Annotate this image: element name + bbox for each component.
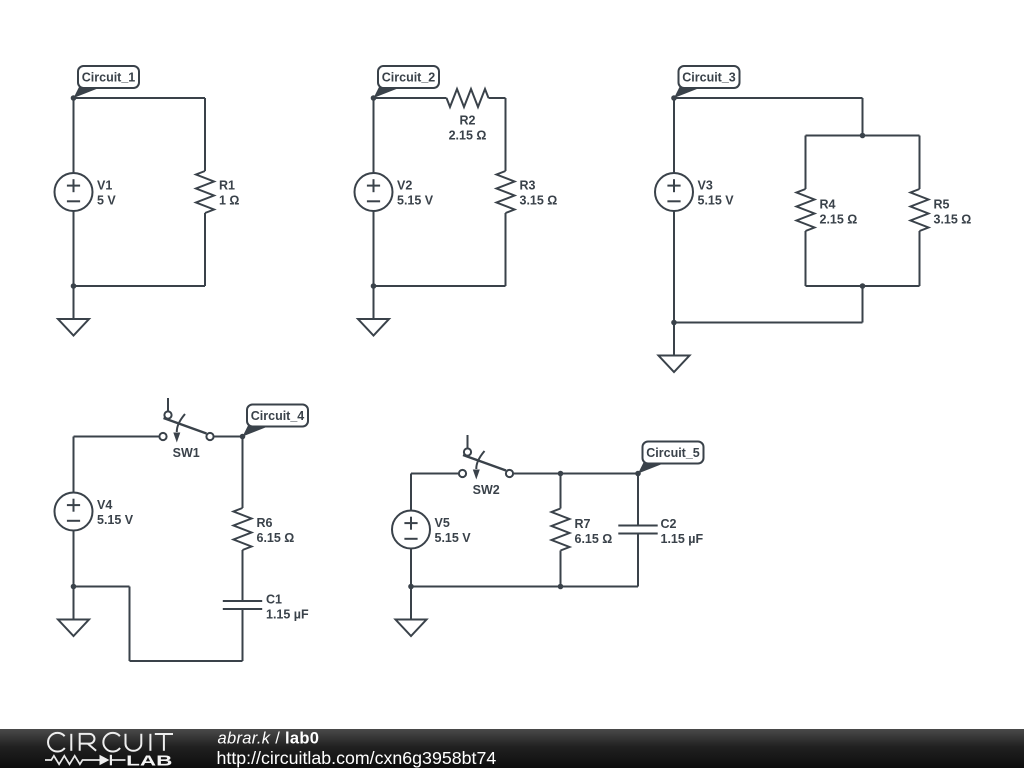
svg-text:R3: R3 (520, 179, 536, 193)
wire bottom rail circuit 3 (674, 322, 863, 324)
wire top right circuit 2 (489, 97, 506, 99)
wire parallel top bar circuit 3 (806, 135, 920, 137)
svg-text:Circuit_3: Circuit_3 (682, 71, 736, 85)
svg-text:SW1: SW1 (173, 446, 200, 460)
wire top left circuit 2 (374, 97, 447, 99)
svg-text:LAB: LAB (126, 753, 172, 768)
wire C2 bottom vertical (637, 534, 639, 587)
capacitor C1 (223, 601, 262, 609)
label R1 1 Ω (219, 179, 239, 208)
wire V4 to SW1 (74, 436, 160, 438)
logo diode symbol (100, 755, 110, 766)
svg-text:Circuit_1: Circuit_1 (82, 71, 136, 85)
logo wire to LAB (112, 759, 126, 761)
wire bottom drop circuit 3 (862, 286, 864, 323)
svg-text:R1: R1 (219, 179, 235, 193)
svg-text:1 Ω: 1 Ω (219, 194, 239, 208)
svg-text:V2: V2 (397, 179, 412, 193)
svg-text:5.15 V: 5.15 V (397, 194, 434, 208)
node top circuit 1 (71, 95, 77, 101)
wire V4 bottom vertical (73, 531, 75, 587)
ground circuit 5 (396, 587, 427, 637)
capacitor C2 (618, 526, 657, 534)
svg-text:Circuit_2: Circuit_2 (382, 71, 436, 85)
label C2 1.15 µF (661, 517, 704, 546)
label R6 6.15 Ω (257, 516, 295, 545)
svg-text:V5: V5 (435, 516, 450, 530)
svg-text:5.15 V: 5.15 V (435, 531, 472, 545)
wire bottom vertical jog circuit 4 (129, 587, 131, 662)
wire C1 down (242, 609, 244, 661)
voltage source V5 (392, 511, 430, 549)
switch SW1 (159, 398, 213, 443)
wire V5 top vertical (410, 474, 412, 511)
wire R4 branch upper (805, 136, 807, 190)
label V3 5.15 V (698, 179, 735, 208)
resistor R7 (552, 509, 570, 551)
label R4 2.15 Ω (820, 198, 858, 227)
resistor R1 (196, 171, 214, 213)
node top circuit 3 (671, 95, 677, 101)
wire bottom rail circuit 5 (411, 586, 638, 588)
node SW2 right rail (558, 471, 564, 477)
svg-text:5.15 V: 5.15 V (97, 513, 134, 527)
wire top rail circuit 3 (674, 97, 863, 99)
footer bar (0, 729, 1024, 768)
wire V5 to SW2 (411, 473, 459, 475)
wire node to R7 (560, 474, 562, 509)
label R5 3.15 Ω (934, 198, 972, 227)
svg-text:C2: C2 (661, 517, 677, 531)
wire bottom rail circuit 2 (374, 285, 506, 287)
wire bottom horizontal circuit 4 (130, 660, 243, 662)
node circuit 5 bottom mid (558, 584, 564, 590)
wire right upper circuit 1 (204, 98, 206, 171)
svg-text:V3: V3 (698, 179, 713, 193)
wire right lower circuit 2 (505, 213, 507, 286)
wire R7 bottom (560, 551, 562, 587)
svg-text:5.15 V: 5.15 V (698, 194, 735, 208)
flag Circuit_4 (243, 405, 309, 437)
node top circuit 2 (371, 95, 377, 101)
logo CIRCUIT letter R (80, 734, 96, 751)
wire right upper circuit 2 (505, 98, 507, 171)
logo diode cathode bar (110, 755, 112, 766)
svg-text:1.15 µF: 1.15 µF (266, 607, 309, 621)
svg-text:3.15 Ω: 3.15 Ω (934, 213, 972, 227)
resistor R3 (497, 171, 515, 213)
label V4 5.15 V (97, 498, 134, 527)
svg-text:5 V: 5 V (97, 194, 116, 208)
logo CIRCUIT letter I (149, 734, 151, 751)
wire SW2 to C2 top (513, 473, 638, 475)
voltage source V4 (55, 493, 93, 531)
wire node to R6 (242, 437, 244, 509)
ground circuit 3 (659, 323, 690, 373)
wire left upper circuit 3 (673, 98, 675, 173)
svg-text:R6: R6 (257, 516, 273, 530)
svg-text:http://circuitlab.com/cxn6g395: http://circuitlab.com/cxn6g3958bt74 (217, 748, 497, 768)
switch SW2 (459, 435, 513, 480)
node parallel bottom circuit 3 (860, 283, 866, 289)
voltage source V1 (55, 173, 93, 211)
node bottom circuit 2 (371, 283, 377, 289)
ground circuit 2 (358, 286, 389, 336)
wire left lower circuit 2 (373, 211, 375, 286)
label C1 1.15 µF (266, 592, 309, 621)
svg-text:2.15 Ω: 2.15 Ω (820, 213, 858, 227)
svg-text:2.15 Ω: 2.15 Ω (449, 128, 487, 142)
svg-text:1.15 µF: 1.15 µF (661, 532, 704, 546)
node circuit 4 bottom (71, 584, 77, 590)
label V1 5 V (97, 179, 116, 208)
resistor R2 (447, 89, 489, 107)
flag Circuit_2 (374, 66, 440, 98)
wire left lower circuit 3 (673, 211, 675, 323)
svg-text:V4: V4 (97, 498, 112, 512)
wire bottom rail circuit 1 (74, 285, 206, 287)
svg-text:6.15 Ω: 6.15 Ω (575, 532, 613, 546)
wire left lower circuit 1 (73, 211, 75, 286)
resistor R4 (797, 189, 815, 231)
wire jog to node circuit 4 (74, 586, 130, 588)
label R2 2.15 Ω (449, 113, 487, 142)
svg-text:C1: C1 (266, 592, 282, 606)
label V2 5.15 V (397, 179, 434, 208)
ground circuit 4 (58, 587, 89, 637)
svg-text:abrar.k / lab0: abrar.k / lab0 (218, 730, 320, 748)
label R7 6.15 Ω (575, 517, 613, 546)
svg-text:6.15 Ω: 6.15 Ω (257, 531, 295, 545)
label V5 5.15 V (435, 516, 472, 545)
wire V4 top vertical (73, 437, 75, 493)
wire left upper circuit 1 (73, 98, 75, 173)
logo CIRCUIT letter U (126, 734, 142, 751)
label R3 3.15 Ω (520, 179, 558, 208)
svg-text:Circuit_4: Circuit_4 (251, 409, 305, 423)
wire top rail circuit 1 (74, 97, 206, 99)
resistor R5 (911, 189, 929, 231)
svg-text:R4: R4 (820, 198, 836, 212)
svg-text:Circuit_5: Circuit_5 (646, 446, 700, 460)
logo CIRCUIT letter T (155, 734, 173, 751)
wire R5 branch upper (919, 136, 921, 190)
wire C2 top vertical (637, 474, 639, 526)
svg-text:R7: R7 (575, 517, 591, 531)
ground circuit 1 (58, 286, 89, 336)
flag Circuit_1 (74, 66, 140, 98)
svg-text:R2: R2 (460, 113, 476, 127)
svg-text:R5: R5 (934, 198, 950, 212)
resistor R6 (234, 508, 252, 550)
node bottom circuit 3 (671, 320, 677, 326)
node parallel top circuit 3 (860, 133, 866, 139)
wire R6 to C1 (242, 550, 244, 601)
wire V5 bottom vertical (410, 549, 412, 587)
svg-text:V1: V1 (97, 179, 112, 193)
logo CIRCUIT letter I (70, 734, 72, 751)
wire parallel bottom bar circuit 3 (806, 285, 920, 287)
wire left upper circuit 2 (373, 98, 375, 173)
wire right lower circuit 1 (204, 213, 206, 286)
svg-text:SW2: SW2 (473, 483, 500, 497)
wire R4 branch lower (805, 231, 807, 286)
flag Circuit_3 (674, 66, 740, 98)
svg-text:3.15 Ω: 3.15 Ω (520, 194, 558, 208)
flag Circuit_5 (638, 442, 704, 474)
voltage source V2 (355, 173, 393, 211)
wire SW1 to node (214, 436, 243, 438)
logo resistor symbol (45, 756, 99, 765)
voltage source V3 (655, 173, 693, 211)
wire R5 branch lower (919, 231, 921, 286)
node circuit 4 top (240, 434, 246, 440)
logo CIRCUIT letter C (103, 733, 120, 752)
node bottom circuit 1 (71, 283, 77, 289)
logo CIRCUIT letter C (48, 733, 65, 752)
node circuit 5 bottom left (408, 584, 414, 590)
wire top drop circuit 3 (862, 98, 864, 136)
node circuit 5 top right (635, 471, 641, 477)
